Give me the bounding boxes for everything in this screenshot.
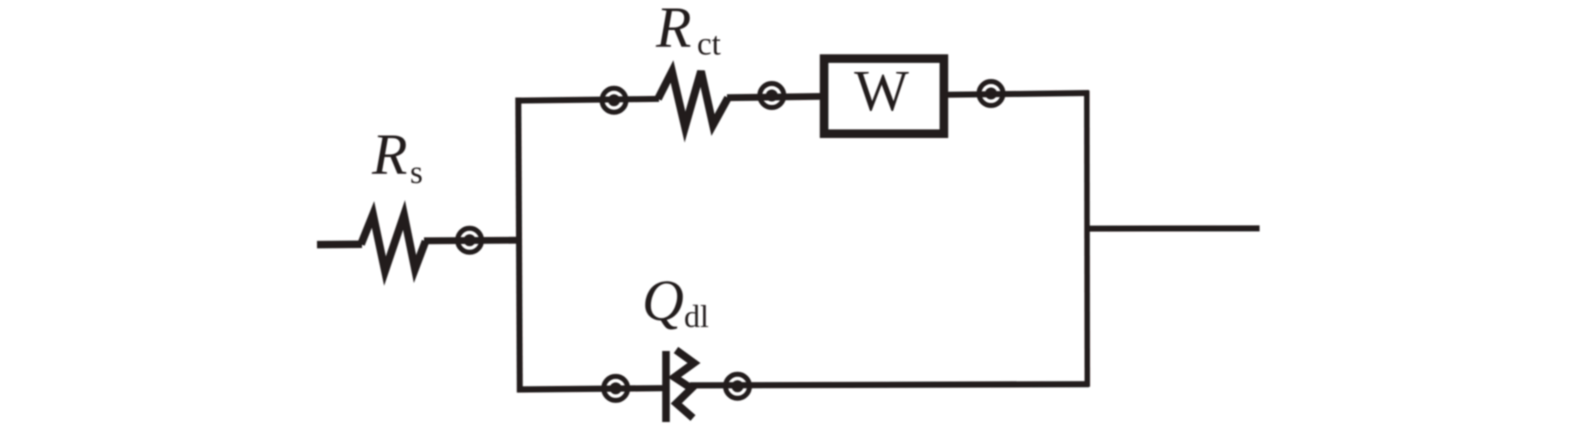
svg-text:ct: ct [697,27,721,63]
svg-text:W: W [854,58,909,123]
svg-text:Q: Q [642,268,684,333]
svg-text:s: s [410,155,423,191]
svg-text:R: R [655,0,691,60]
svg-text:R: R [371,122,407,187]
svg-text:dl: dl [684,298,709,334]
